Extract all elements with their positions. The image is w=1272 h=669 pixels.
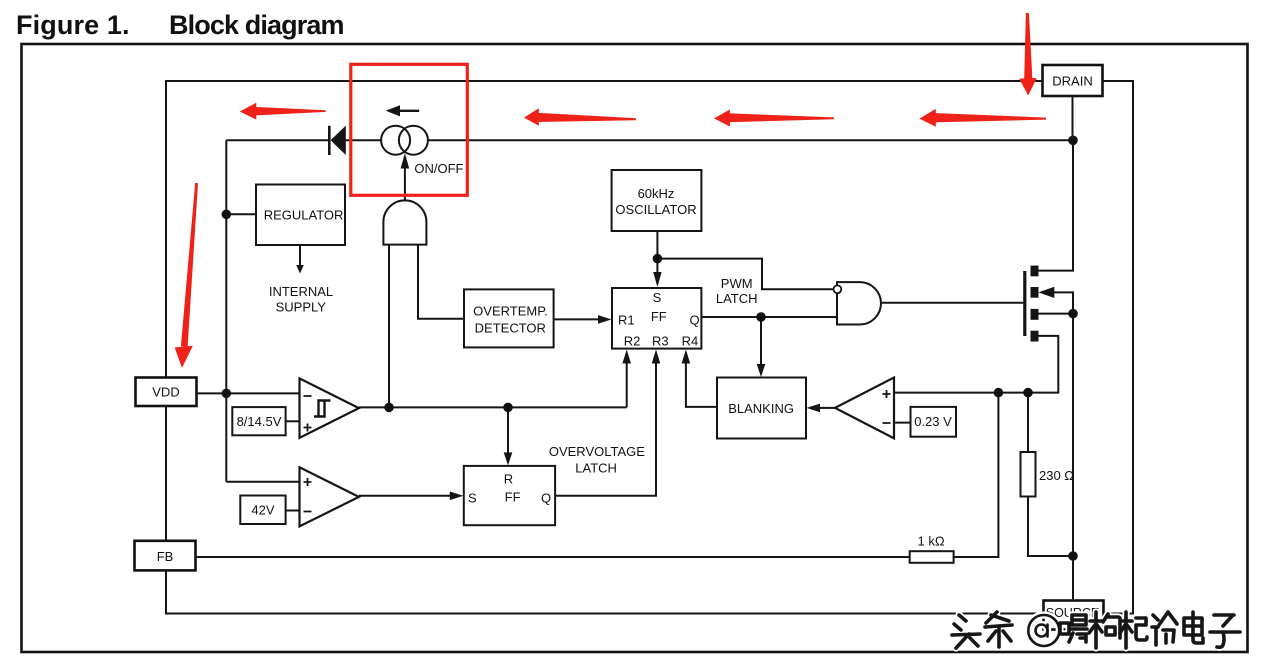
wire sense comparator minus to 0.23V ref	[894, 422, 911, 424]
wire regulator input stub	[226, 213, 256, 215]
svg-text:FF: FF	[505, 489, 521, 504]
red highlight box around current source	[351, 64, 468, 195]
overtemp detector block	[464, 289, 554, 347]
wire 230 ohm bottom to source node	[1028, 497, 1074, 557]
svg-text:0.23 V: 0.23 V	[914, 414, 952, 429]
wire oscillator branch to nand input	[657, 259, 833, 290]
svg-text:REGULATOR: REGULATOR	[264, 207, 344, 222]
svg-text:Block diagram: Block diagram	[169, 10, 345, 40]
wire sense comparator output arrow to blanking	[820, 407, 836, 409]
wire 42V ref to comparator minus	[286, 510, 300, 512]
diode	[329, 126, 346, 155]
figure title	[16, 10, 345, 40]
wire regulator to internal supply arrow	[299, 245, 301, 266]
8/14.5V reference box	[232, 407, 285, 435]
svg-text:R2: R2	[624, 334, 641, 349]
svg-text:R3: R3	[652, 334, 669, 349]
current direction arrow	[386, 105, 420, 116]
svg-text:R1: R1	[618, 312, 635, 327]
wire oscillator output down arrow to S	[656, 231, 658, 273]
junction sense left	[994, 388, 1004, 398]
wire vdd rail vertical	[225, 140, 227, 481]
svg-text:FB: FB	[157, 549, 174, 564]
junction vdd	[222, 389, 232, 399]
wire drain pin stub	[1072, 96, 1074, 140]
wire mosfet third terminal	[1039, 313, 1074, 315]
svg-text:OSCILLATOR: OSCILLATOR	[615, 202, 696, 217]
pin VDD	[136, 378, 197, 407]
junction ov latch reset	[503, 403, 513, 413]
resistor 230 ohm	[1021, 452, 1075, 497]
IC boundary	[166, 81, 1133, 614]
wire ov latch Q to R3 arrow	[555, 362, 656, 496]
pin SOURCE	[1044, 601, 1104, 630]
wire to R2 with arrowhead	[626, 362, 628, 407]
junction uvlo output	[384, 403, 394, 413]
42V comparator	[300, 467, 359, 526]
wire sense comparator plus to mosfet source	[894, 336, 1058, 393]
42V reference box	[240, 496, 285, 525]
UVLO hysteresis comparator	[300, 378, 359, 437]
nand input bubble	[834, 285, 842, 293]
svg-text:Q: Q	[690, 312, 700, 327]
annotation red arrow mid	[714, 110, 834, 127]
svg-text:42V: 42V	[251, 502, 274, 517]
junction regulator tap	[222, 210, 232, 220]
wire overtemp output arrow to R1	[554, 318, 600, 320]
OVERVOLTAGE LATCH label	[549, 444, 645, 475]
PWM latch flip-flop	[612, 288, 701, 349]
svg-text:1 kΩ: 1 kΩ	[918, 534, 945, 549]
svg-text:FF: FF	[651, 309, 667, 324]
svg-text:230 Ω: 230 Ω	[1039, 468, 1074, 483]
svg-text:Figure 1.: Figure 1.	[16, 10, 130, 40]
wire 230 ohm top	[1027, 393, 1029, 452]
wire diode to current source	[346, 139, 382, 141]
svg-text:OVERVOLTAGE: OVERVOLTAGE	[549, 444, 645, 459]
oscillator block	[612, 170, 702, 231]
internal supply label	[269, 284, 333, 315]
wire vdd to comparator minus	[197, 392, 300, 394]
svg-text:R4: R4	[682, 334, 699, 349]
wire mosfet body to source node	[1054, 292, 1074, 600]
svg-text:DRAIN: DRAIN	[1052, 74, 1092, 89]
junction pwm q	[756, 312, 766, 322]
wire drain node to mosfet drain	[1039, 140, 1074, 270]
blanking block	[717, 378, 806, 439]
wire FB to 1k resistor	[196, 556, 911, 558]
wire vdd rail to 42V comparator plus	[226, 481, 299, 483]
wire top rail left to diode	[226, 139, 329, 141]
wire node to R of ov latch arrow	[507, 407, 509, 453]
wire current source to drain node	[428, 139, 1073, 141]
svg-text:60kHz: 60kHz	[638, 186, 675, 201]
watermark	[952, 612, 1240, 648]
annotation red arrow right	[919, 109, 1046, 127]
wire 42V comparator output arrow to S of ov latch	[359, 495, 451, 497]
AND gate	[383, 200, 426, 244]
annotation red arrow mid-left	[524, 108, 636, 126]
wire and-gate right input from overtemp	[418, 245, 464, 319]
PWM LATCH label	[716, 276, 758, 306]
wire Q node to blanking arrow	[760, 317, 762, 365]
power MOSFET	[1025, 266, 1055, 342]
wire blanking output to R4 arrow	[686, 362, 717, 407]
svg-text:DETECTOR: DETECTOR	[475, 321, 546, 336]
regulator block	[256, 185, 345, 246]
svg-text:PWM: PWM	[721, 276, 753, 291]
svg-text:Q: Q	[541, 490, 551, 505]
wire and-gate left input	[388, 245, 390, 408]
wire and-gate to current source ON/OFF arrow	[404, 168, 406, 200]
junction source	[1068, 551, 1078, 561]
NAND gate (inverted-input AND)	[837, 282, 881, 324]
current sense comparator	[835, 378, 894, 439]
wire nand output to mosfet gate	[881, 302, 1024, 304]
wire 1k resistor to sense node	[954, 393, 999, 557]
annotation red arrow top-left	[240, 103, 326, 120]
svg-text:OVERTEMP.: OVERTEMP.	[473, 304, 548, 319]
svg-text:BLANKING: BLANKING	[728, 401, 794, 416]
junction drain	[1068, 136, 1078, 146]
resistor 1 kohm	[910, 534, 954, 563]
annotation red arrow left vertical	[175, 183, 198, 368]
svg-text:R: R	[504, 472, 513, 487]
junction sense right	[1023, 388, 1033, 398]
junction oscillator	[653, 254, 663, 264]
wire uvlo comparator output bus	[359, 406, 627, 408]
svg-text:VDD: VDD	[152, 385, 179, 400]
svg-text:S: S	[468, 490, 477, 505]
annotation red arrow drain vertical	[1019, 13, 1037, 96]
pin FB	[135, 541, 196, 571]
svg-text:LATCH: LATCH	[716, 291, 758, 306]
current source	[381, 126, 428, 155]
svg-text:8/14.5V: 8/14.5V	[237, 414, 282, 429]
wire pwm latch Q output to nand	[701, 316, 837, 318]
overvoltage latch flip-flop	[464, 466, 555, 525]
junction mosfet tap	[1068, 309, 1078, 319]
svg-text:ON/OFF: ON/OFF	[414, 161, 463, 176]
svg-text:INTERNAL: INTERNAL	[269, 284, 333, 299]
svg-text:SUPPLY: SUPPLY	[276, 300, 327, 315]
0.23V reference box	[911, 407, 957, 437]
pin DRAIN	[1043, 65, 1103, 96]
svg-text:LATCH: LATCH	[575, 461, 617, 476]
wire 8/14.5V ref to comparator plus	[286, 420, 300, 422]
svg-text:S: S	[653, 290, 662, 305]
